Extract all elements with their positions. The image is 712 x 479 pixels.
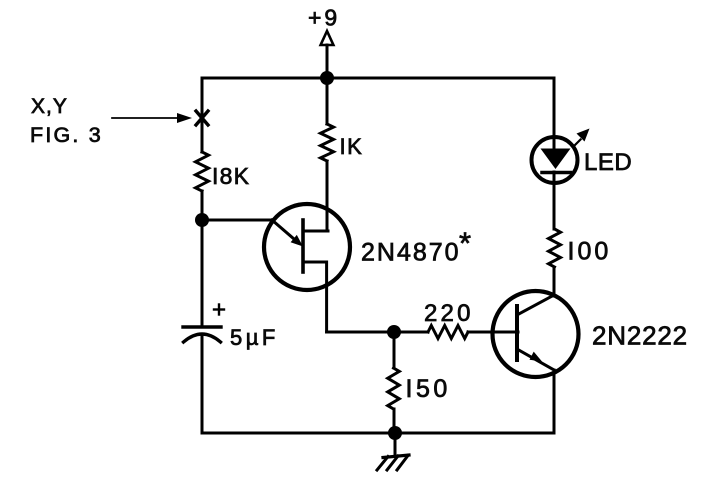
resistor 100 zigzag [549, 229, 561, 267]
svg-text:IK: IK [340, 134, 364, 159]
wire UJT emitter horizontal [202, 219, 272, 222]
wire Q2 emitter to bottom rail [553, 370, 556, 433]
Q2 base bar [515, 306, 519, 360]
ground symbol [377, 433, 409, 470]
svg-text:*: * [459, 226, 471, 261]
wire 100 to Q2 collector [553, 268, 556, 296]
svg-text:220: 220 [424, 300, 474, 327]
svg-text:2N2222: 2N2222 [592, 321, 688, 351]
LED light emission arrow [574, 129, 590, 147]
svg-text:LED: LED [584, 149, 632, 176]
wire mid rail left (UJT b1 to 220) [327, 331, 428, 334]
svg-text:I00: I00 [568, 238, 612, 266]
wire LED to 100 [553, 172, 556, 229]
capacitor C1 5uF top plate [183, 325, 221, 328]
svg-text:2N4870: 2N4870 [361, 239, 461, 267]
UJT emitter lead with arrowhead [272, 220, 303, 247]
svg-text:I50: I50 [406, 375, 451, 403]
svg-text:X,Y: X,Y [31, 95, 68, 118]
junction dot ground node [388, 426, 402, 440]
LED circle [532, 137, 578, 183]
wire node C to 150 [393, 332, 396, 368]
UJT base1 lead [303, 262, 327, 332]
X connection mark [196, 111, 208, 125]
LED cathode bar [542, 171, 571, 175]
wire right rail top (rail to LED) [553, 78, 556, 149]
junction dot top rail / 1K node [320, 71, 334, 85]
svg-text:FIG. 3: FIG. 3 [30, 123, 103, 147]
junction dot node C (220/150) [387, 325, 401, 339]
arrow pointing to X [112, 113, 192, 123]
LED triangle [541, 149, 571, 170]
resistor 220 zigzag [428, 326, 468, 339]
svg-text:5µF: 5µF [230, 325, 279, 350]
wire left rail lower [201, 335, 204, 433]
resistor 1K zigzag [321, 124, 334, 161]
Q2 emitter lead with arrowhead [517, 349, 554, 370]
resistor 18K zigzag [196, 152, 209, 191]
capacitor C1 curved bottom plate [184, 334, 221, 342]
wire 1K to UJT base2 [326, 161, 329, 231]
junction dot node A (18K/cap/UJT emitter) [195, 213, 209, 227]
wire bottom rail [202, 432, 554, 435]
svg-text:I8K: I8K [212, 163, 250, 189]
power supply arrow +9 [321, 31, 334, 78]
transistor Q2 2N2222 circle [493, 291, 579, 377]
UJT base bar [301, 220, 305, 272]
UJT base2 lead [303, 230, 328, 233]
UJT 2N4870 circle [264, 204, 350, 290]
Q2 collector lead [517, 295, 554, 315]
wire +9 node to 1K [326, 78, 329, 124]
wire left rail upper [201, 78, 204, 152]
wire 150 to bottom rail [393, 409, 396, 433]
wire left rail middle [201, 191, 204, 326]
capacitor + polarity mark [214, 305, 224, 315]
resistor 150 zigzag [388, 368, 400, 409]
svg-text:+9: +9 [308, 5, 340, 31]
wire top rail [202, 77, 554, 80]
wire mid rail right (220 to Q2 base) [468, 331, 518, 334]
